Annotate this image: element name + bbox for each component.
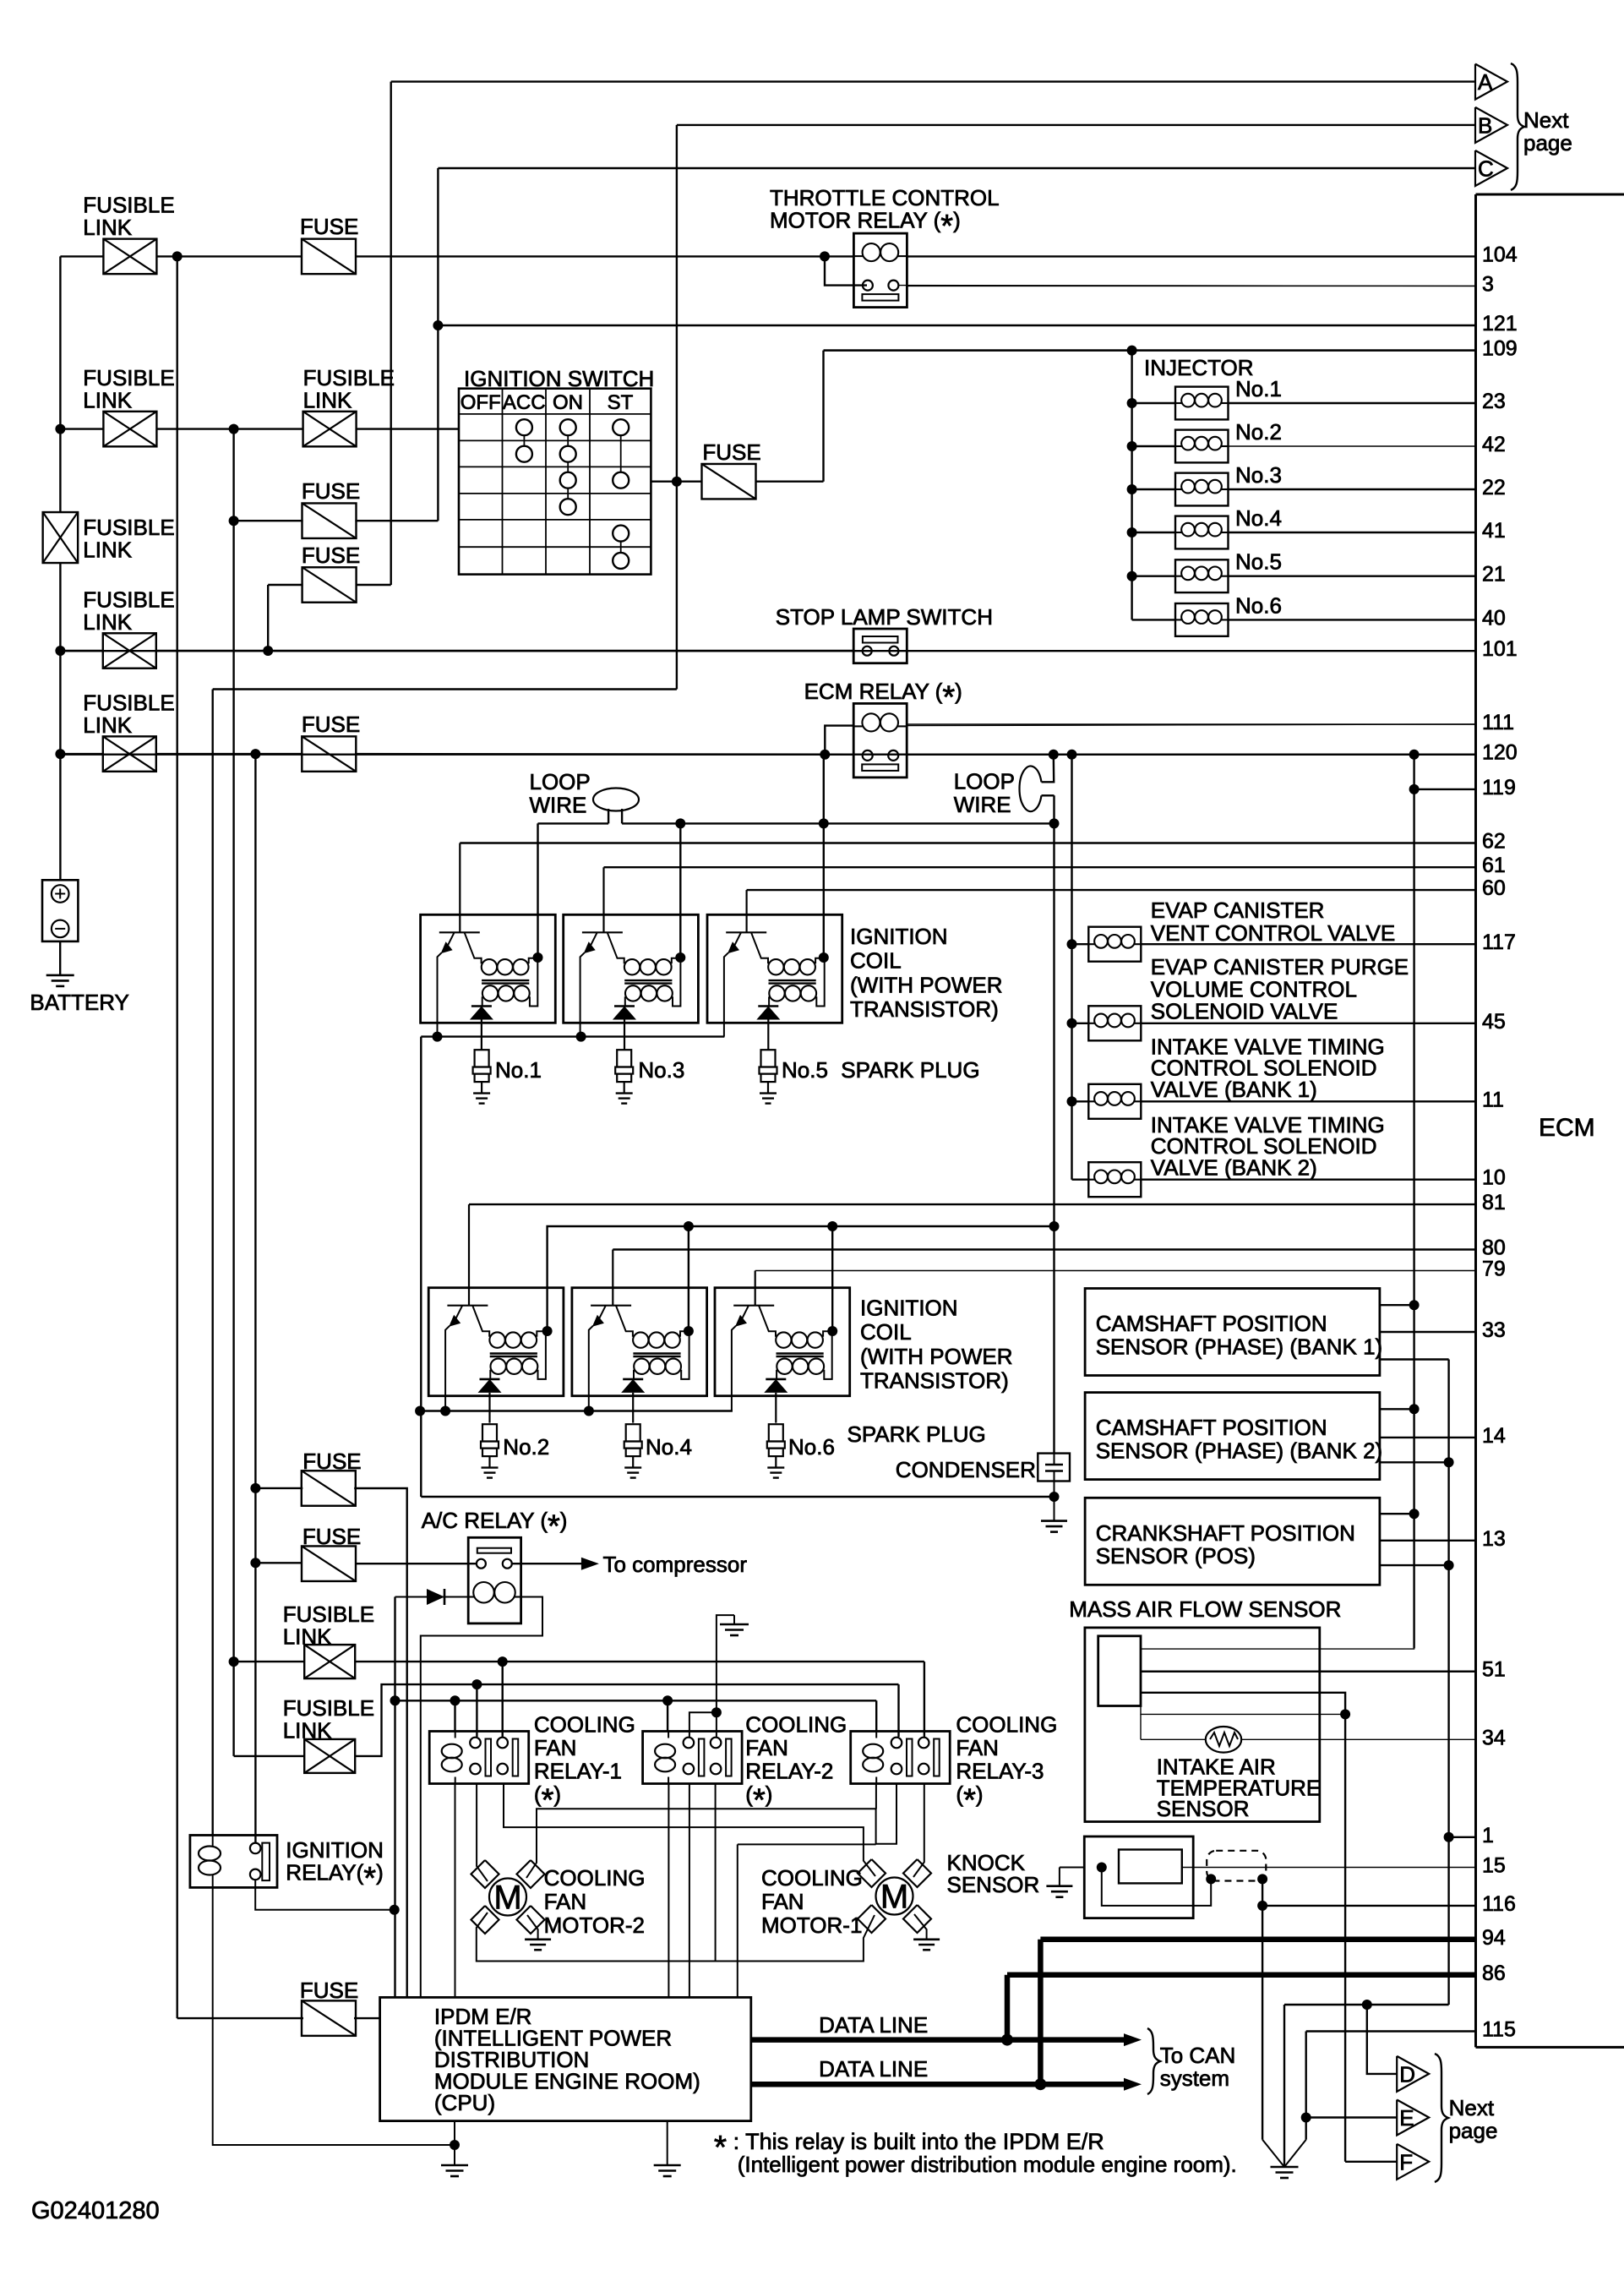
knock sensor ground hook — [1060, 1867, 1084, 1869]
fusible link row3 — [103, 633, 156, 668]
svg-text:LINK: LINK — [283, 1624, 332, 1650]
svg-text:FUSE: FUSE — [302, 543, 360, 568]
ignition switch output wire — [651, 481, 677, 483]
svg-text:SENSOR (PHASE) (BANK 2): SENSOR (PHASE) (BANK 2) — [1096, 1438, 1383, 1463]
diode — [480, 1378, 500, 1381]
svg-text:COIL: COIL — [850, 948, 902, 974]
loop wire right of ECM relay — [1042, 755, 1055, 783]
svg-text:SOLENOID VALVE: SOLENOID VALVE — [1151, 999, 1338, 1024]
A/C relay coil feed vertical x467 — [394, 1597, 395, 1998]
svg-text:10: 10 — [1482, 1166, 1506, 1190]
junction dot row1 — [172, 251, 183, 261]
IPDM fuse — [177, 2017, 303, 2019]
junction dot fuse3 tap — [263, 646, 273, 656]
row2 wire: fusible links to ignition switch — [60, 428, 103, 429]
svg-text:LINK: LINK — [83, 215, 132, 240]
power transistor — [447, 1305, 488, 1307]
svg-text:(CPU): (CPU) — [434, 2090, 495, 2115]
riser to pin109 line — [822, 351, 824, 482]
svg-text:COIL: COIL — [860, 1319, 912, 1345]
svg-text:MOTOR-1: MOTOR-1 — [761, 1913, 862, 1938]
injector No.6 — [1132, 619, 1175, 620]
svg-text:(Intelligent power distributio: (Intelligent power distribution module e… — [738, 2152, 1237, 2177]
wire to C — [438, 167, 1475, 169]
ignition coil secondary — [777, 1359, 792, 1374]
svg-text:86: 86 — [1482, 1962, 1506, 1985]
knock internal shield wire — [1097, 1863, 1107, 1873]
svg-text:LINK: LINK — [83, 609, 132, 635]
vertical x276 from row2 down to A/C fusible link — [232, 429, 234, 1756]
relay1 left contact to motor2 NW — [477, 1784, 488, 1882]
svg-text:IGNITION: IGNITION — [860, 1295, 958, 1320]
wire pin120 segment — [907, 754, 1475, 756]
injector No.1 — [1127, 398, 1137, 408]
svg-text:(WITH POWER: (WITH POWER — [860, 1344, 1013, 1369]
svg-text:LINK: LINK — [83, 712, 132, 738]
fusible link row4 — [103, 736, 156, 772]
svg-text:No.2: No.2 — [503, 1434, 549, 1460]
svg-text:ACC: ACC — [503, 391, 546, 414]
injector No.4 — [1127, 527, 1137, 538]
ignition coil secondary — [625, 985, 640, 1001]
svg-text:To CAN: To CAN — [1160, 2043, 1236, 2068]
spark plug No.5 — [761, 1050, 776, 1067]
fuse after ignition switch — [677, 481, 703, 483]
svg-text:FUSIBLE: FUSIBLE — [83, 365, 174, 390]
arrow A next page — [1475, 64, 1507, 100]
svg-text:No.3: No.3 — [1235, 462, 1282, 488]
svg-text:41: 41 — [1482, 519, 1506, 543]
svg-text:FUSIBLE: FUSIBLE — [83, 587, 174, 613]
svg-text:Next: Next — [1523, 107, 1569, 133]
svg-text:62: 62 — [1482, 830, 1506, 854]
lower collector feed line — [548, 1226, 1055, 1331]
injector No.5 — [1127, 571, 1137, 581]
vertical ECM-relay-dot to coil3 — [823, 755, 825, 958]
row4 wire: ECM relay feed — [60, 753, 102, 755]
ignition coil secondary — [482, 985, 498, 1001]
ignition coil 6 (lower) — [715, 1288, 850, 1396]
svg-text:COOLING: COOLING — [544, 1865, 646, 1891]
fusible link row1 — [103, 239, 156, 275]
svg-text:VALVE (BANK 2): VALVE (BANK 2) — [1151, 1154, 1317, 1180]
svg-text:RELAY-2: RELAY-2 — [745, 1758, 833, 1783]
ignition coil secondary — [490, 1359, 505, 1374]
arrow C next page — [1475, 150, 1507, 186]
svg-text:21: 21 — [1482, 563, 1506, 587]
spark plug No.2 — [482, 1424, 497, 1441]
vertical from row1 dot to IPDM fuse — [176, 256, 177, 2018]
svg-text:No.5: No.5 — [782, 1057, 828, 1083]
vertical x302 to ignition relay — [254, 754, 256, 1842]
svg-text:FAN: FAN — [761, 1889, 804, 1914]
svg-text:117: 117 — [1482, 930, 1516, 954]
to compressor wire — [512, 1563, 585, 1564]
svg-text:page: page — [1449, 2118, 1498, 2143]
cooling fan motor-2 — [471, 1860, 499, 1888]
wire to E arrow — [1306, 2116, 1398, 2118]
svg-text:119: 119 — [1482, 776, 1516, 799]
svg-text:TRANSISTOR): TRANSISTOR) — [860, 1367, 1009, 1393]
crankshaft position sensor — [1085, 1498, 1380, 1585]
spark plug No.4 — [626, 1424, 640, 1441]
relay2 bottoms to IPDM — [668, 1784, 669, 1998]
relay1 right contact to motor1 NW — [504, 1784, 875, 1877]
cooling fan relay-1 — [429, 1732, 529, 1784]
arrow D next page — [1397, 2056, 1429, 2092]
wire to spark plug — [481, 1020, 482, 1050]
svg-text:LINK: LINK — [303, 388, 352, 413]
svg-text:CAMSHAFT POSITION: CAMSHAFT POSITION — [1096, 1311, 1327, 1336]
intake valve timing control solenoid valve bank1 — [1067, 1096, 1077, 1106]
dots and risers to relay coils — [450, 1695, 460, 1705]
camshaft position sensor bank 1 — [1085, 1289, 1380, 1376]
svg-text:42: 42 — [1482, 433, 1506, 456]
fuse row1 — [302, 239, 356, 275]
ground funnel — [1262, 2140, 1284, 2167]
svg-text:34: 34 — [1482, 1726, 1506, 1749]
MAF stub3 down to F — [1141, 1693, 1345, 2162]
diode for A/C relay coil — [395, 1596, 469, 1598]
svg-text:No.4: No.4 — [1235, 505, 1282, 531]
svg-text:To compressor: To compressor — [603, 1552, 748, 1577]
fusible link cooling fan row2 — [234, 1755, 305, 1757]
ECM box — [1474, 194, 1477, 2047]
ignition switch contacts ACC — [516, 419, 532, 435]
wire to spark plug — [488, 1393, 490, 1423]
svg-text:FUSIBLE: FUSIBLE — [283, 1602, 374, 1627]
collector junction dots lower — [542, 1326, 553, 1336]
MAF stub pin51 — [1141, 1670, 1476, 1672]
svg-text:VENT CONTROL VALVE: VENT CONTROL VALVE — [1151, 920, 1395, 946]
svg-text:FUSIBLE: FUSIBLE — [83, 193, 174, 218]
svg-text:45: 45 — [1482, 1010, 1506, 1034]
A/C relay coil return — [421, 1597, 542, 1998]
svg-text:No.5: No.5 — [1235, 549, 1282, 575]
svg-text:ECM: ECM — [1539, 1114, 1595, 1142]
svg-text:MOTOR-2: MOTOR-2 — [544, 1913, 645, 1938]
fusible link row2 left — [103, 412, 156, 446]
ignition switch contacts ST — [613, 419, 629, 435]
relay3 coil bottom — [875, 1784, 877, 1809]
svg-text:No.3: No.3 — [638, 1057, 684, 1083]
ignition coil secondary — [769, 985, 784, 1001]
relay3 BL to motor tie via x872 — [737, 1844, 738, 1997]
fuse3 wire — [267, 585, 269, 651]
wire to D arrow — [1367, 2005, 1397, 2074]
svg-text:11: 11 — [1482, 1088, 1504, 1111]
row1 wire: battery to throttle relay / pin104 — [60, 255, 103, 257]
riser to fan relay3 left contact — [897, 1684, 899, 1737]
svg-text:No.1: No.1 — [495, 1057, 542, 1083]
fan relay2 contacts tied to ground hook — [689, 1712, 717, 1738]
cooling fan motor-1 — [858, 1859, 886, 1887]
svg-text:22: 22 — [1482, 476, 1506, 499]
svg-text:G02401280: G02401280 — [31, 2197, 160, 2224]
diode — [758, 1005, 778, 1007]
spark plug No.1 — [475, 1050, 489, 1067]
relay3 right contact to motor1 NE — [913, 1784, 924, 1878]
svg-text:D: D — [1399, 2061, 1415, 2087]
svg-text:RELAY-3: RELAY-3 — [956, 1758, 1044, 1783]
svg-text:33: 33 — [1482, 1318, 1506, 1342]
svg-text:EVAP CANISTER: EVAP CANISTER — [1151, 898, 1325, 923]
svg-text:94: 94 — [1482, 1926, 1506, 1950]
svg-text:40: 40 — [1482, 606, 1506, 630]
svg-text:SENSOR (PHASE) (BANK 1): SENSOR (PHASE) (BANK 1) — [1096, 1334, 1383, 1359]
IPDM E/R box — [380, 1997, 751, 2120]
svg-text:FUSE: FUSE — [302, 1449, 361, 1474]
svg-text:(WITH POWER: (WITH POWER — [850, 972, 1003, 997]
ignition coil 2 (lower) — [428, 1288, 564, 1396]
ignition coil primary — [768, 959, 783, 974]
EVAP canister purge volume control solenoid valve — [1067, 1018, 1077, 1029]
fusible link row2 right — [303, 412, 357, 446]
relay3 left contact jog to motor2 NE — [526, 1784, 896, 1879]
svg-text:13: 13 — [1482, 1527, 1506, 1551]
svg-text:101: 101 — [1482, 637, 1518, 661]
MAF stub to x1673 — [1141, 1647, 1414, 1650]
battery main vertical — [59, 256, 61, 512]
svg-text:IGNITION: IGNITION — [286, 1837, 384, 1863]
coil core — [633, 1352, 680, 1354]
svg-text:SENSOR: SENSOR — [947, 1872, 1040, 1897]
dot and riser to fan relay1 left contact — [471, 1679, 482, 1689]
svg-text:system: system — [1160, 2065, 1229, 2091]
svg-text:LINK: LINK — [83, 388, 132, 413]
collector junction dots upper — [533, 952, 543, 963]
junction dot injector feed — [1127, 346, 1137, 356]
ignition relay contact output — [255, 1880, 395, 1910]
svg-text:CONDENSER: CONDENSER — [896, 1457, 1036, 1482]
injector bus vertical — [1131, 351, 1132, 620]
throttle relay coil jog — [825, 256, 867, 285]
svg-text:LINK: LINK — [283, 1718, 332, 1743]
fusible link cooling fan row1 — [229, 1656, 239, 1667]
arrow B next page — [1475, 107, 1507, 143]
ignition relay coil line — [212, 1836, 214, 1847]
wire to A — [391, 80, 1475, 82]
motor1 SE ground — [914, 1914, 927, 1940]
emitter bus lower — [420, 1410, 733, 1411]
svg-text:COOLING: COOLING — [534, 1711, 635, 1737]
diode — [614, 1005, 635, 1007]
svg-text:THROTTLE CONTROL: THROTTLE CONTROL — [770, 185, 1000, 210]
svg-text:CAMSHAFT POSITION: CAMSHAFT POSITION — [1096, 1415, 1327, 1440]
svg-text:COOLING: COOLING — [956, 1711, 1057, 1737]
ignition coil primary — [624, 959, 640, 974]
wire pin1 vertical to D line — [1444, 1832, 1454, 1842]
power transistor — [439, 931, 480, 933]
svg-text:15: 15 — [1482, 1854, 1506, 1878]
svg-text:80: 80 — [1482, 1236, 1506, 1260]
svg-text:SENSOR (POS): SENSOR (POS) — [1096, 1543, 1256, 1569]
shielded connector dashed box — [1207, 1851, 1266, 1881]
battery — [42, 880, 78, 941]
svg-text:DATA LINE: DATA LINE — [819, 2056, 928, 2082]
arrow F next page — [1397, 2144, 1429, 2180]
ECM relay coil jog — [825, 726, 853, 755]
svg-text:LOOP: LOOP — [954, 769, 1015, 794]
wire ST down-left to ignition relay branch — [213, 688, 677, 690]
svg-text:VALVE (BANK 1): VALVE (BANK 1) — [1151, 1077, 1317, 1102]
svg-text:SPARK PLUG: SPARK PLUG — [847, 1422, 986, 1447]
power transistor — [726, 931, 766, 933]
fuse3 — [302, 567, 357, 603]
svg-text:FUSE: FUSE — [702, 439, 760, 465]
svg-text:CRANKSHAFT POSITION: CRANKSHAFT POSITION — [1096, 1520, 1355, 1546]
svg-text:MASS AIR FLOW SENSOR: MASS AIR FLOW SENSOR — [1069, 1596, 1341, 1622]
svg-text:FUSIBLE: FUSIBLE — [83, 690, 174, 716]
svg-text:FUSE: FUSE — [302, 478, 360, 504]
ignition coil primary — [489, 1332, 504, 1347]
svg-text:FUSE: FUSE — [302, 1524, 361, 1549]
cooling fan relay-3 — [851, 1732, 950, 1784]
junction dot at throttle relay — [820, 251, 830, 261]
svg-text:61: 61 — [1482, 854, 1506, 877]
wire to spark plug — [624, 1020, 625, 1050]
ECM pin lines and numbers — [907, 255, 1476, 257]
diode — [766, 1378, 786, 1381]
svg-text:BATTERY: BATTERY — [30, 990, 129, 1015]
svg-text:FAN: FAN — [544, 1889, 587, 1914]
injector No.3 — [1127, 484, 1137, 494]
svg-text:No.4: No.4 — [646, 1434, 692, 1460]
svg-text:TRANSISTOR): TRANSISTOR) — [850, 996, 999, 1022]
fusible link vertical in battery line — [43, 512, 79, 563]
junction dots on loop wire line — [675, 818, 685, 828]
svg-text:FUSIBLE: FUSIBLE — [283, 1695, 374, 1721]
riser x518 to pin121 and C — [437, 168, 439, 521]
svg-text:C: C — [1478, 156, 1494, 182]
vertical x1673 sensor supply — [1413, 755, 1414, 1649]
svg-text:109: 109 — [1482, 337, 1518, 361]
svg-text:A: A — [1478, 69, 1493, 95]
svg-text:60: 60 — [1482, 876, 1506, 900]
brace next page top — [1511, 63, 1524, 190]
coil core — [482, 980, 529, 981]
coil core — [624, 980, 672, 981]
ignition coil primary — [633, 1332, 648, 1347]
svg-text:120: 120 — [1482, 741, 1518, 765]
camshaft position sensor bank 2 — [1085, 1393, 1380, 1480]
svg-text:Next: Next — [1449, 2095, 1495, 2120]
svg-text:FUSE: FUSE — [300, 1978, 358, 2003]
svg-text:WIRE: WIRE — [954, 792, 1011, 817]
condenser ground — [1054, 1497, 1055, 1521]
svg-text:COOLING: COOLING — [761, 1865, 863, 1891]
svg-text:OFF: OFF — [460, 391, 501, 414]
svg-text:FUSIBLE: FUSIBLE — [83, 515, 174, 540]
ignition coil 4 (lower) — [572, 1288, 707, 1396]
wires pins 62/61/60 to coil bases — [459, 843, 460, 915]
vertical EVAP bus x1268 — [1071, 755, 1072, 1180]
spark plug No.6 — [769, 1424, 783, 1441]
wire to spark plug — [632, 1393, 634, 1423]
svg-text:SENSOR: SENSOR — [1157, 1796, 1250, 1821]
CAN verticals from pins 94/86 — [1038, 1940, 1044, 2084]
svg-text:23: 23 — [1482, 390, 1506, 413]
emitter bus upper — [421, 1035, 724, 1037]
svg-text:FAN: FAN — [956, 1735, 999, 1760]
svg-text:104: 104 — [1482, 243, 1518, 266]
motor2 SE ground — [527, 1915, 538, 1940]
svg-text:FUSIBLE: FUSIBLE — [303, 365, 395, 390]
IPDM ground right — [667, 2121, 668, 2165]
svg-text:E: E — [1399, 2105, 1414, 2131]
MAF stub4 to dot — [1141, 1706, 1345, 1715]
svg-text:No.2: No.2 — [1235, 419, 1282, 445]
svg-text:page: page — [1523, 130, 1572, 156]
ignition coil secondary — [634, 1359, 649, 1374]
relay1 coil bottom to IPDM — [455, 1784, 456, 1998]
intake air temperature sensor — [1140, 1714, 1142, 1739]
ignition coil primary — [482, 959, 497, 974]
svg-text:WIRE: WIRE — [530, 793, 587, 818]
spark plug No.3 — [617, 1050, 631, 1067]
row fuse2 wire to C line riser — [229, 516, 239, 526]
vertical x800 B riser — [676, 125, 678, 690]
dot and riser to fan relay1 right contact — [498, 1656, 508, 1667]
wire from coil group to condenser — [421, 1496, 1054, 1498]
coil core — [769, 980, 816, 981]
fuse to A/C relay riser — [250, 1483, 260, 1493]
svg-text:ON: ON — [553, 391, 583, 414]
coil core — [777, 1352, 824, 1354]
svg-text:51: 51 — [1482, 1658, 1506, 1682]
svg-text:79: 79 — [1482, 1258, 1506, 1281]
svg-text:FUSE: FUSE — [300, 214, 358, 239]
riser x462 to A line — [390, 82, 392, 585]
svg-text:115: 115 — [1482, 2018, 1516, 2042]
coil supply row3 — [390, 1695, 401, 1705]
svg-text:M: M — [493, 1880, 521, 1917]
wire to spark plug — [767, 1020, 769, 1050]
svg-text:B: B — [1478, 112, 1492, 138]
fuse to A/C relay contact — [250, 1558, 260, 1568]
svg-text:LOOP: LOOP — [530, 769, 591, 794]
svg-text:121: 121 — [1482, 312, 1518, 336]
svg-text:F: F — [1399, 2149, 1413, 2175]
power transistor — [733, 1305, 774, 1307]
fuse row4 — [302, 736, 356, 772]
wires pins 81/80/79 to lower coil bases — [468, 1204, 470, 1288]
intake valve timing control solenoid valve bank2 — [1072, 1178, 1089, 1180]
svg-text:111: 111 — [1482, 711, 1514, 734]
svg-text:DATA LINE: DATA LINE — [819, 2012, 928, 2038]
ignition relay — [190, 1836, 277, 1888]
ignition relay coil to IPDM ground — [213, 1887, 455, 2145]
wire to B — [677, 124, 1475, 126]
svg-text:3: 3 — [1482, 272, 1494, 296]
coil core — [490, 1352, 537, 1354]
riser to fan relay3 right contact — [924, 1662, 925, 1737]
motor SW tie line — [477, 1913, 875, 1962]
injector No.2 — [1127, 441, 1137, 451]
svg-text:No.6: No.6 — [788, 1434, 835, 1460]
svg-text:ST: ST — [608, 391, 634, 414]
coil collector feed verticals upper — [537, 823, 538, 958]
svg-text:LINK: LINK — [83, 538, 132, 563]
shield to ground funnel vertical — [1262, 1879, 1263, 2139]
power transistor — [591, 1305, 631, 1307]
fuse2 — [302, 503, 357, 538]
row3 wire: stop lamp switch feed — [60, 650, 102, 652]
svg-text:No.6: No.6 — [1235, 592, 1282, 618]
vertical condenser bus x1247 — [1053, 795, 1055, 1453]
arrow E next page — [1397, 2100, 1429, 2136]
svg-text:81: 81 — [1482, 1191, 1506, 1214]
